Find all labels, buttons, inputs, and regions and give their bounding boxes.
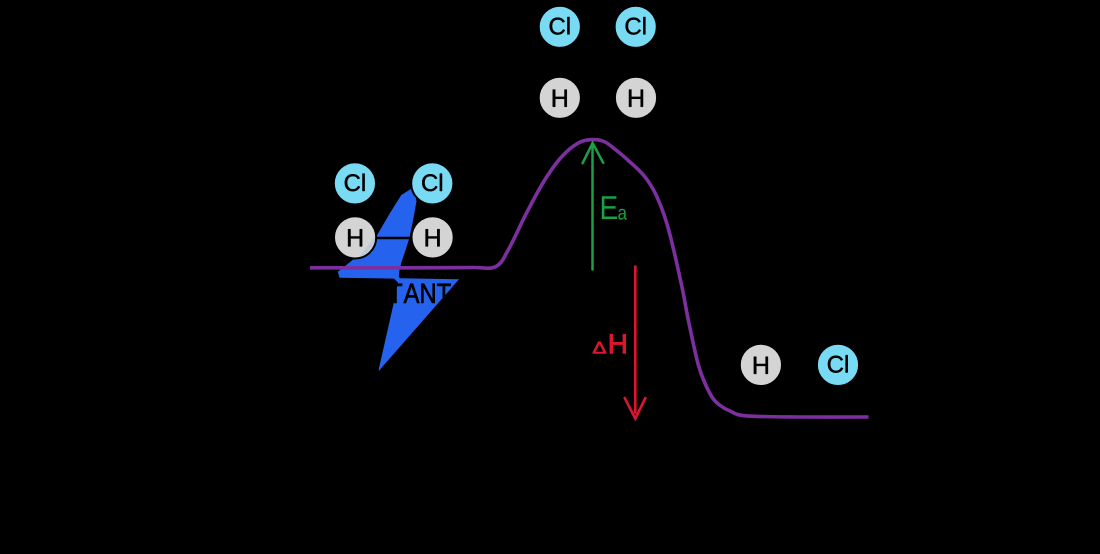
right Cl atom — [817, 344, 859, 386]
Ea label — [602, 196, 627, 219]
top H atom 1 — [539, 77, 581, 119]
energy curve — [310, 140, 869, 418]
reactants label (black, partially visible over bolt) — [324, 283, 466, 303]
left H atom 2 — [412, 216, 454, 258]
delta H label — [593, 334, 626, 353]
left Cl atom 2 — [411, 162, 453, 204]
activation energy arrow (green, up) — [583, 143, 604, 270]
left Cl atom 1 — [334, 162, 376, 204]
delta H arrow (red, down) — [625, 267, 646, 419]
top H atom 2 — [615, 77, 657, 119]
H-H bond (left pair) — [356, 237, 432, 239]
top Cl atom 1 — [539, 6, 581, 48]
top Cl atom 2 — [615, 6, 657, 48]
right H atom — [740, 344, 782, 386]
lightning bolt — [338, 187, 459, 371]
left H atom 1 — [334, 216, 376, 258]
